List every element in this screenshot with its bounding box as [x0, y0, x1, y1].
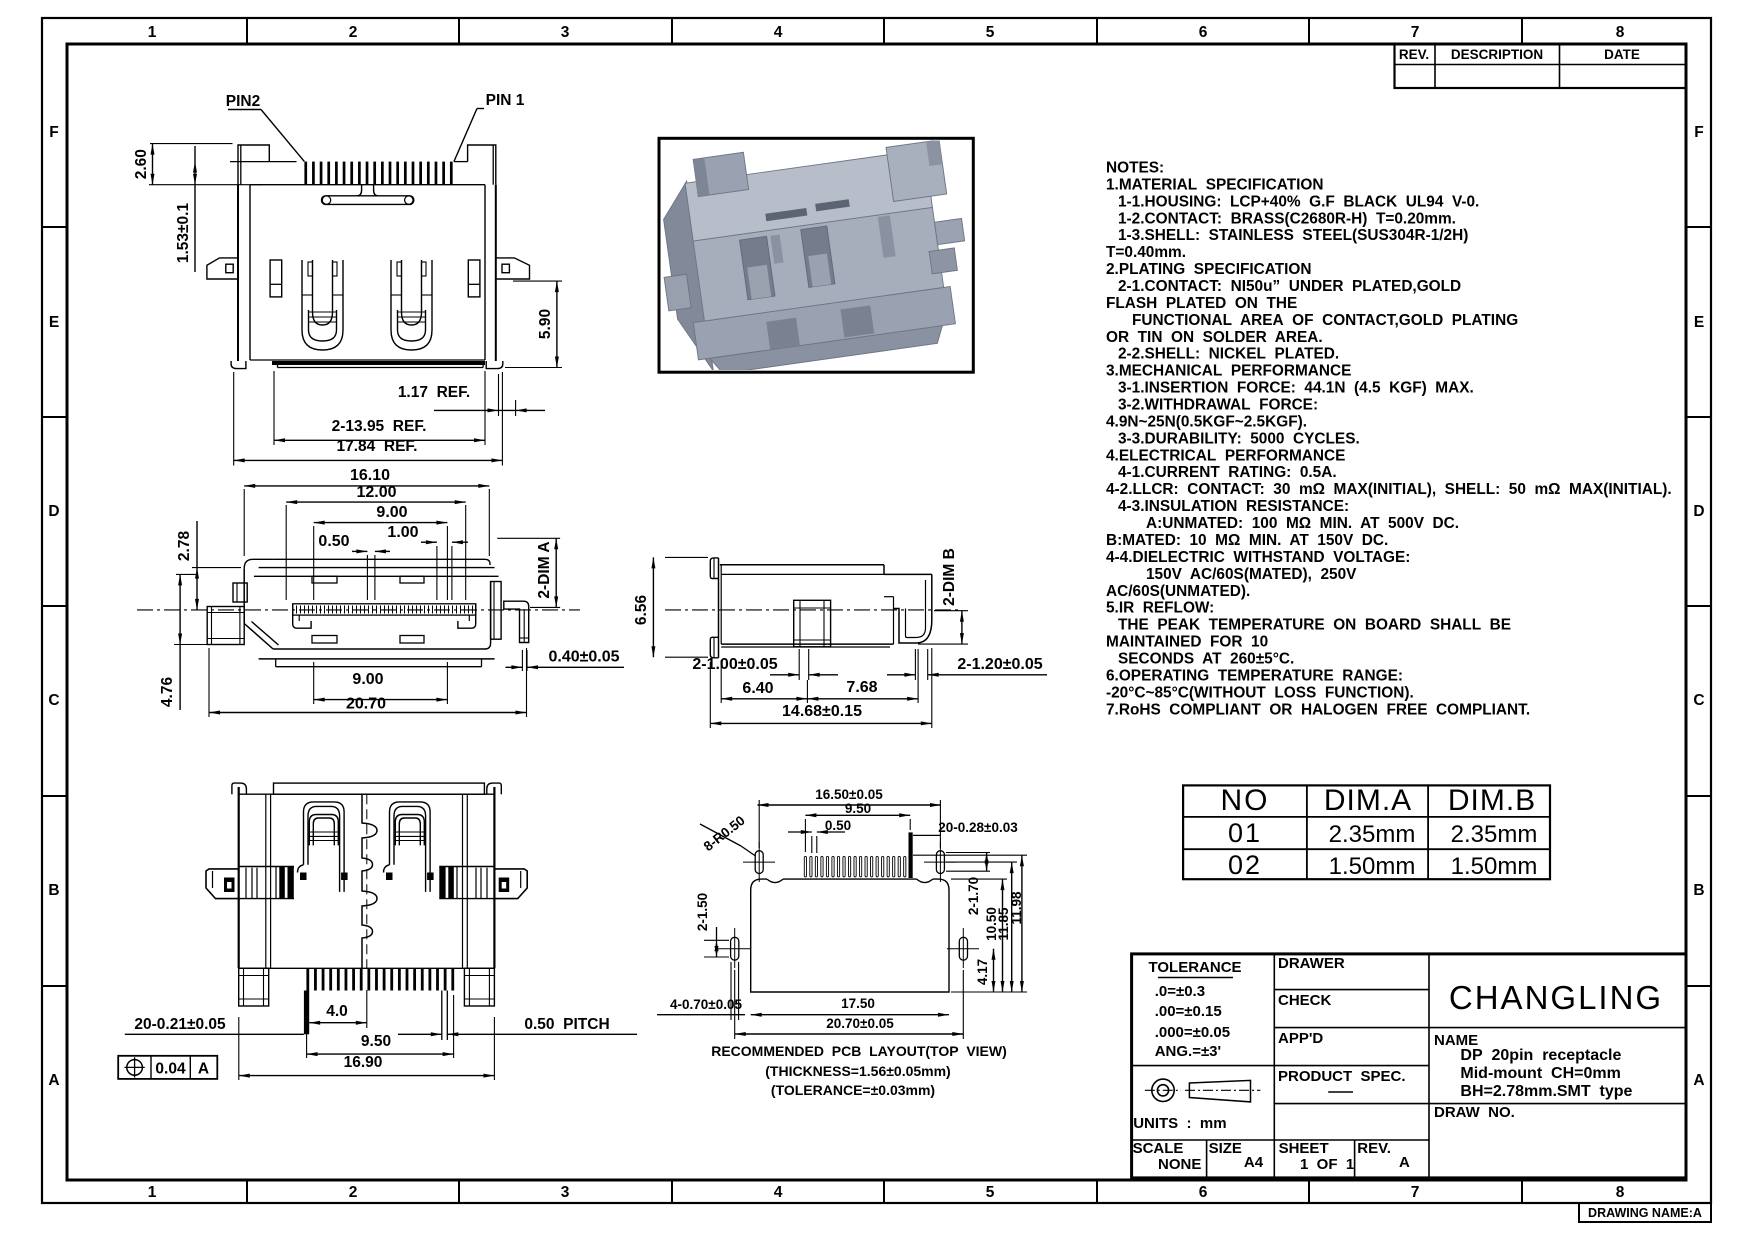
svg-text:TOLERANCE: TOLERANCE	[1148, 959, 1241, 976]
svg-text:3: 3	[561, 24, 570, 41]
isometric 3d latch tab right	[808, 254, 831, 287]
section view left mount pad	[207, 607, 244, 645]
svg-text:4-1.CURRENT RATING: 0.5A.: 4-1.CURRENT RATING: 0.5A.	[1118, 464, 1337, 481]
svg-text:(TOLERANCE=±0.03mm): (TOLERANCE=±0.03mm)	[771, 1082, 935, 1098]
svg-text:150V AC/60S(MATED), 250V: 150V AC/60S(MATED), 250V	[1146, 566, 1357, 583]
isometric 3d bottom strip	[710, 326, 945, 375]
svg-text:REV.: REV.	[1399, 47, 1429, 62]
bottom view center dashed line	[366, 794, 368, 968]
svg-text:B: B	[1693, 882, 1704, 899]
dimension 20.70	[208, 648, 210, 717]
dimension 0.50 PITCH	[398, 1033, 442, 1035]
svg-text:REV.: REV.	[1357, 1140, 1391, 1157]
isometric 3d small post right	[878, 215, 896, 258]
svg-text:NO: NO	[1221, 784, 1270, 817]
svg-text:8: 8	[1616, 1184, 1625, 1201]
svg-text:1-1.HOUSING: LCP+40% G.F BL: 1-1.HOUSING: LCP+40% G.F BLACK UL94 V-0.	[1118, 193, 1479, 210]
dimension 4.17	[993, 949, 995, 992]
svg-text:PRODUCT SPEC.: PRODUCT SPEC.	[1278, 1068, 1406, 1085]
dimension 2-1.70	[946, 852, 990, 854]
svg-text:B:MATED: 10 MΩ MIN. AT 15: B:MATED: 10 MΩ MIN. AT 150V DC.	[1106, 532, 1388, 549]
dimension 0.50	[366, 555, 368, 600]
svg-text:MAINTAINED FOR 10: MAINTAINED FOR 10	[1106, 634, 1268, 651]
svg-text:4.ELECTRICAL PERFORMANCE: 4.ELECTRICAL PERFORMANCE	[1106, 447, 1345, 464]
title block frame	[1132, 954, 1686, 1178]
svg-text:1.00: 1.00	[387, 524, 418, 541]
section view right mount pad	[504, 601, 529, 642]
isometric 3d bottom window right	[840, 305, 874, 337]
dimension 2-DIM B	[934, 610, 968, 612]
bottom view reference lead black	[304, 991, 309, 1035]
svg-text:C: C	[48, 692, 59, 709]
svg-text:6.40: 6.40	[742, 680, 773, 697]
dimension 2-13.95 REF.	[273, 371, 275, 445]
svg-text:SCALE: SCALE	[1133, 1140, 1184, 1157]
svg-text:1.MATERIAL SPECIFICATION: 1.MATERIAL SPECIFICATION	[1106, 176, 1323, 193]
dimension 0.40±0.05	[521, 650, 523, 671]
svg-text:SHEET: SHEET	[1279, 1140, 1329, 1157]
front view bottom plate	[250, 359, 485, 361]
svg-text:2-1.70: 2-1.70	[966, 877, 981, 915]
zone row ticks left	[42, 226, 67, 228]
svg-text:Mid-mount CH=0mm: Mid-mount CH=0mm	[1460, 1065, 1620, 1082]
svg-text:RECOMMENDED PCB LAYOUT(TOP: RECOMMENDED PCB LAYOUT(TOP VIEW)	[711, 1043, 1007, 1059]
svg-text:4.76: 4.76	[159, 677, 176, 708]
section view left top tab	[233, 583, 247, 602]
dimension 2-1.00±0.05	[798, 649, 800, 680]
svg-text:DATE: DATE	[1604, 47, 1640, 62]
svg-text:2.35mm: 2.35mm	[1451, 821, 1538, 848]
dimension 10.50	[951, 878, 1007, 880]
svg-text:3.MECHANICAL PERFORMANCE: 3.MECHANICAL PERFORMANCE	[1106, 363, 1351, 380]
isometric 3d top face	[685, 150, 932, 241]
dimension 6.56	[665, 556, 708, 558]
bottom view right wall lines	[462, 794, 464, 968]
front view contact pins comb	[304, 162, 307, 185]
svg-text:5: 5	[986, 24, 995, 41]
svg-text:D: D	[1693, 503, 1704, 520]
front view left inner block	[270, 260, 282, 297]
section view bottom notch rects	[312, 636, 337, 644]
svg-text:A: A	[1399, 1154, 1410, 1171]
front view shell left wall	[237, 185, 239, 361]
dim table frame	[1183, 785, 1550, 879]
svg-text:DRAWER: DRAWER	[1278, 955, 1345, 972]
front view top flange right block	[468, 145, 496, 185]
dimension 12.00	[285, 505, 287, 600]
dimension 17.50	[751, 1014, 949, 1016]
dimension 2-1.50	[704, 939, 729, 941]
svg-text:1: 1	[148, 1184, 157, 1201]
svg-text:2-1.20±0.05: 2-1.20±0.05	[957, 656, 1042, 673]
svg-text:1.50mm: 1.50mm	[1329, 853, 1416, 880]
svg-text:F: F	[1694, 124, 1703, 141]
svg-text:SECONDS AT 260±5°C.: SECONDS AT 260±5°C.	[1118, 650, 1294, 667]
svg-text:4.0: 4.0	[326, 1003, 348, 1020]
svg-text:BH=2.78mm.SMT type: BH=2.78mm.SMT type	[1460, 1083, 1632, 1100]
svg-text:PIN2: PIN2	[226, 93, 260, 110]
svg-text:20.70: 20.70	[346, 696, 386, 713]
svg-text:2-DIM B: 2-DIM B	[941, 548, 958, 606]
svg-text:4.17: 4.17	[975, 959, 990, 985]
front view left foot	[231, 361, 246, 369]
dimension 1.53±0.1	[194, 146, 196, 272]
svg-text:02: 02	[1228, 850, 1262, 880]
front view latch bar	[322, 196, 414, 205]
front view left mounting ear	[207, 258, 238, 279]
bottom view right ear	[494, 869, 527, 899]
isometric 3d left lug	[664, 274, 691, 311]
section view centerline	[137, 609, 580, 611]
svg-text:B: B	[48, 882, 59, 899]
svg-text:UNITS : mm: UNITS : mm	[1133, 1115, 1226, 1132]
svg-text:1-2.CONTACT: BRASS(C2680R-H): 1-2.CONTACT: BRASS(C2680R-H) T=0.20mm.	[1118, 210, 1456, 227]
svg-text:E: E	[49, 314, 59, 331]
bottom view top left hook	[232, 783, 247, 794]
isometric 3d bottom flange	[693, 286, 955, 359]
isometric 3d front bezel	[693, 207, 943, 321]
svg-text:4: 4	[774, 1184, 783, 1201]
dimension 4.0	[309, 1022, 367, 1024]
bottom view smt lead comb	[306, 968, 309, 990]
svg-text:6.56: 6.56	[633, 595, 650, 626]
svg-text:5: 5	[986, 1184, 995, 1201]
svg-text:20.70±0.05: 20.70±0.05	[826, 1016, 894, 1031]
section view chamfer bottom-left	[244, 624, 273, 650]
revision table frame	[1395, 44, 1687, 88]
svg-text:CHANGLING: CHANGLING	[1449, 979, 1663, 1016]
svg-text:E: E	[1694, 314, 1704, 331]
front view left contact spring	[302, 260, 343, 350]
isometric 3d bottom window left	[766, 318, 800, 350]
svg-text:.000=±0.05: .000=±0.05	[1155, 1024, 1230, 1041]
position tolerance frame	[118, 1056, 217, 1079]
isometric 3d left side wall	[659, 181, 714, 375]
section view right bump	[491, 582, 502, 640]
svg-text:0.04: 0.04	[155, 1061, 186, 1078]
isometric 3d small post left	[770, 235, 783, 264]
pcb pin pad 20 reference filled	[909, 832, 913, 878]
svg-text:4-4.DIELECTRIC WITHSTAND VOL: 4-4.DIELECTRIC WITHSTAND VOLTAGE:	[1106, 549, 1410, 566]
svg-text:THE PEAK TEMPERATURE ON BO: THE PEAK TEMPERATURE ON BOARD SHALL BE	[1118, 617, 1511, 634]
svg-text:1 OF 1: 1 OF 1	[1300, 1156, 1354, 1173]
dimension 2.78	[192, 567, 241, 569]
svg-text:CHECK: CHECK	[1278, 992, 1332, 1009]
svg-text:DRAW NO.: DRAW NO.	[1434, 1104, 1515, 1121]
svg-text:1.53±0.1: 1.53±0.1	[175, 203, 192, 264]
front view right mounting ear	[496, 258, 530, 279]
svg-text:9.00: 9.00	[376, 504, 407, 521]
svg-text:16.10: 16.10	[350, 467, 390, 484]
front view tongue stem	[357, 185, 378, 196]
svg-text:DRAWING NAME:A: DRAWING NAME:A	[1588, 1206, 1702, 1220]
side view body outline	[718, 558, 720, 658]
bottom view left wall lines	[265, 794, 267, 968]
svg-text:2: 2	[349, 1184, 358, 1201]
revision table header separator	[1395, 64, 1687, 66]
revision table column lines	[1434, 44, 1436, 88]
isometric 3d right upper lug	[935, 218, 965, 244]
title block scale size divider	[1206, 1140, 1208, 1178]
dimension 16.50±0.05 pcb	[758, 800, 760, 848]
svg-text:5.90: 5.90	[537, 309, 554, 339]
svg-text:DP 20pin receptacle: DP 20pin receptacle	[1460, 1047, 1621, 1064]
svg-text:1.50mm: 1.50mm	[1451, 853, 1538, 880]
svg-text:1.17 REF.: 1.17 REF.	[398, 384, 470, 401]
pcb oval pad top-right	[936, 851, 944, 874]
svg-text:12.00: 12.00	[356, 484, 396, 501]
title block cone symbol	[1189, 1080, 1250, 1102]
dimension 9.00 top	[313, 526, 315, 600]
svg-text:7: 7	[1411, 1184, 1420, 1201]
dimension 5.90	[513, 280, 562, 282]
svg-text:NONE: NONE	[1158, 1156, 1201, 1173]
svg-text:2-1.50: 2-1.50	[695, 893, 710, 931]
front view right inner block	[468, 260, 480, 297]
dimension 2.60	[150, 143, 233, 145]
svg-text:ANG.=±3': ANG.=±3'	[1155, 1043, 1221, 1060]
svg-text:01: 01	[1228, 818, 1262, 848]
svg-text:1: 1	[148, 24, 157, 41]
front view right foot	[486, 361, 503, 369]
svg-text:3-1.INSERTION FORCE: 44.1N: 3-1.INSERTION FORCE: 44.1N (4.5 KGF) MAX…	[1118, 380, 1474, 397]
front view shell right wall	[495, 185, 497, 361]
svg-text:T=0.40mm.: T=0.40mm.	[1106, 244, 1186, 261]
svg-text:A4: A4	[1244, 1154, 1264, 1171]
svg-text:A: A	[198, 1061, 209, 1078]
svg-text:20-0.28±0.03: 20-0.28±0.03	[938, 820, 1018, 835]
bottom view pitch reference leads	[441, 991, 443, 1041]
section view bottom lines	[273, 648, 485, 650]
svg-text:2-1.00±0.05: 2-1.00±0.05	[692, 656, 777, 673]
svg-text:9.00: 9.00	[352, 671, 383, 688]
side view top mount tab	[710, 558, 718, 579]
svg-text:APP'D: APP'D	[1278, 1030, 1323, 1047]
dimension 20-0.28±0.03	[913, 834, 941, 836]
section view right bracket	[458, 604, 476, 628]
svg-text:2-2.SHELL: NICKEL PLATED.: 2-2.SHELL: NICKEL PLATED.	[1118, 346, 1339, 363]
svg-text:17.50: 17.50	[841, 996, 875, 1011]
isometric 3d top right raised tab	[886, 140, 947, 201]
title block tolerance row line	[1132, 1065, 1275, 1067]
section view contact band	[293, 604, 476, 615]
dimension 9.00 bottom	[313, 662, 315, 704]
zone column ticks top	[246, 18, 248, 44]
dimension 4.76	[176, 573, 196, 575]
pcb pin pads	[804, 856, 806, 877]
svg-text:0.40±0.05: 0.40±0.05	[548, 649, 619, 666]
svg-text:2-DIM A: 2-DIM A	[536, 541, 553, 598]
isometric 3d latch window left	[740, 236, 775, 299]
bottom view left foot block	[239, 968, 269, 1006]
section view outer shell	[273, 559, 490, 565]
dim table row lines	[1183, 816, 1550, 818]
svg-text:6: 6	[1199, 1184, 1208, 1201]
dimension 11.85	[946, 861, 1017, 863]
svg-text:16.50±0.05: 16.50±0.05	[815, 787, 883, 802]
zone column ticks bottom	[246, 1180, 248, 1203]
dim table column lines	[1306, 785, 1308, 879]
svg-text:OR TIN ON SOLDER AREA.: OR TIN ON SOLDER AREA.	[1106, 329, 1323, 346]
svg-text:FUNCTIONAL AREA OF CONTACT,: FUNCTIONAL AREA OF CONTACT,GOLD PLATING	[1132, 312, 1518, 329]
title block projection symbol	[1152, 1079, 1174, 1101]
svg-text:DIM.B: DIM.B	[1448, 784, 1536, 817]
dimension 16.10	[243, 489, 245, 556]
svg-text:0.50 PITCH: 0.50 PITCH	[524, 1016, 609, 1033]
dimension 9.50 bottom view	[306, 995, 308, 1058]
zone row ticks right	[1686, 226, 1711, 228]
svg-text:2.35mm: 2.35mm	[1329, 821, 1416, 848]
svg-text:2.PLATING SPECIFICATION: 2.PLATING SPECIFICATION	[1106, 261, 1312, 278]
bottom view left ear	[206, 869, 239, 899]
front view top flange left block	[238, 145, 269, 185]
svg-text:7: 7	[1411, 24, 1420, 41]
bottom view center seam	[362, 794, 377, 968]
svg-text:7.RoHS COMPLIANT OR HALOGEN: 7.RoHS COMPLIANT OR HALOGEN FREE COMPLIA…	[1106, 701, 1530, 718]
svg-text:9.50: 9.50	[845, 801, 871, 816]
svg-text:2.78: 2.78	[176, 531, 193, 562]
pcb oval pad bottom-right	[959, 937, 967, 960]
title block vertical divider 1	[1273, 954, 1275, 1178]
svg-text:0.50: 0.50	[825, 818, 851, 833]
bottom view right ear hatch	[486, 868, 488, 899]
svg-text:(THICKNESS=1.56±0.05mm): (THICKNESS=1.56±0.05mm)	[765, 1063, 950, 1079]
dimension 0.50 pcb	[811, 836, 813, 853]
svg-text:3: 3	[561, 1184, 570, 1201]
side view bottom mount tab	[710, 637, 718, 658]
svg-text:PIN 1: PIN 1	[486, 92, 525, 109]
dimension 17.84 REF.	[233, 372, 235, 466]
svg-text:6: 6	[1199, 24, 1208, 41]
pcb body outline	[751, 890, 949, 992]
isometric 3d right lower lug	[929, 248, 957, 274]
svg-text:0.50: 0.50	[318, 533, 349, 550]
section view left bracket	[293, 604, 311, 628]
drawing name box	[1579, 1203, 1711, 1222]
bottom view right contact spring	[390, 802, 431, 892]
bottom view top right hook	[487, 783, 502, 794]
isometric 3d latch window right	[801, 226, 835, 287]
title block right rows	[1429, 1027, 1686, 1029]
dimension 6.40	[720, 660, 722, 703]
svg-text:C: C	[1693, 692, 1704, 709]
isometric 3d top left raised tab	[693, 152, 748, 196]
svg-text:.0=±0.3: .0=±0.3	[1155, 983, 1205, 1000]
svg-text:4: 4	[774, 24, 783, 41]
svg-text:5.IR REFLOW:: 5.IR REFLOW:	[1106, 600, 1214, 617]
svg-text:4-3.INSULATION RESISTANCE:: 4-3.INSULATION RESISTANCE:	[1118, 498, 1349, 515]
svg-text:-20°C~85°C(WITHOUT LOSS FUNC: -20°C~85°C(WITHOUT LOSS FUNCTION).	[1106, 684, 1414, 701]
svg-text:17.84 REF.: 17.84 REF.	[337, 438, 418, 455]
svg-text:FLASH PLATED ON THE: FLASH PLATED ON THE	[1106, 295, 1297, 312]
svg-text:8: 8	[1616, 24, 1625, 41]
svg-text:3-2.WITHDRAWAL FORCE:: 3-2.WITHDRAWAL FORCE:	[1118, 397, 1318, 414]
svg-text:7.68: 7.68	[846, 679, 877, 696]
isometric 3d latch tab left	[747, 265, 771, 299]
pcb oval pad bottom-left	[731, 937, 739, 960]
isometric 3d top slot left	[765, 208, 807, 221]
pcb oval pad top-left	[755, 851, 763, 874]
svg-text:1-3.SHELL: STAINLESS STEEL(S: 1-3.SHELL: STAINLESS STEEL(SUS304R-1/2H)	[1118, 227, 1468, 244]
title block vertical divider 2	[1428, 954, 1430, 1178]
front view flange bottom line	[250, 184, 485, 186]
bottom view left contact spring	[304, 802, 345, 892]
dimension 9.50 pcb	[804, 819, 806, 852]
svg-text:3-3.DURABILITY: 5000 CYCLES.: 3-3.DURABILITY: 5000 CYCLES.	[1118, 430, 1360, 447]
svg-text:2-1.CONTACT: NI50u” UNDER P: 2-1.CONTACT: NI50u” UNDER PLATED,GOLD	[1118, 278, 1461, 295]
svg-text:14.68±0.15: 14.68±0.15	[782, 703, 862, 720]
side view center contact block	[794, 600, 831, 647]
svg-text:6.OPERATING TEMPERATURE RANG: 6.OPERATING TEMPERATURE RANGE:	[1106, 667, 1403, 684]
svg-text:SIZE: SIZE	[1209, 1140, 1242, 1157]
dimension 11.98	[913, 854, 1027, 856]
title block drawer rows	[1274, 989, 1429, 991]
svg-text:9.50: 9.50	[361, 1033, 391, 1050]
svg-text:11.98: 11.98	[1009, 891, 1024, 925]
svg-text:2-13.95 REF.: 2-13.95 REF.	[332, 418, 427, 435]
dimension 7.68	[917, 649, 919, 703]
svg-text:20-0.21±0.05: 20-0.21±0.05	[134, 1016, 226, 1033]
svg-text:4.9N~25N(0.5KGF~2.5KGF).: 4.9N~25N(0.5KGF~2.5KGF).	[1106, 413, 1307, 430]
bottom view left ear hatch	[245, 868, 247, 899]
dimension 1.00	[436, 546, 438, 600]
svg-text:AC/60S(UNMATED).: AC/60S(UNMATED).	[1106, 583, 1250, 600]
svg-text:A:UNMATED: 100 MΩ MIN. AT: A:UNMATED: 100 MΩ MIN. AT 500V DC.	[1146, 515, 1459, 532]
section view top notch rects	[312, 576, 337, 583]
svg-text:4-2.LLCR: CONTACT: 30 mΩ M: 4-2.LLCR: CONTACT: 30 mΩ MAX(INITIAL), S…	[1106, 481, 1672, 498]
svg-text:DIM.A: DIM.A	[1324, 784, 1412, 817]
svg-text:D: D	[48, 503, 59, 520]
front view right contact spring	[391, 260, 432, 350]
dimension 2-DIM A	[497, 537, 560, 539]
svg-text:NOTES:: NOTES:	[1106, 160, 1164, 177]
dimension 16.90	[238, 1017, 240, 1080]
side view centerline	[665, 609, 959, 611]
svg-text:16.90: 16.90	[344, 1054, 383, 1071]
isometric 3d view frame	[659, 138, 973, 372]
dimension 2-1.20±0.05	[914, 649, 916, 680]
isometric 3d top slot right	[815, 199, 850, 211]
bottom view right foot block	[464, 968, 494, 1006]
svg-text:A: A	[1693, 1072, 1704, 1089]
svg-text:4-0.70±0.05: 4-0.70±0.05	[670, 997, 742, 1012]
svg-text:2: 2	[349, 24, 358, 41]
bottom view outer rect	[238, 787, 240, 968]
bottom view top band	[274, 783, 485, 794]
svg-text:DESCRIPTION: DESCRIPTION	[1451, 47, 1543, 62]
title block sheet rev divider	[1354, 1140, 1356, 1178]
svg-text:2.60: 2.60	[133, 149, 150, 179]
dimension 14.68±0.15	[709, 662, 711, 728]
front view pin row top step line	[230, 161, 297, 163]
svg-text:.00=±0.15: .00=±0.15	[1155, 1003, 1222, 1020]
svg-text:F: F	[49, 124, 58, 141]
svg-text:A: A	[48, 1072, 59, 1089]
dimension 20.70±0.05 pcb	[734, 970, 736, 1039]
